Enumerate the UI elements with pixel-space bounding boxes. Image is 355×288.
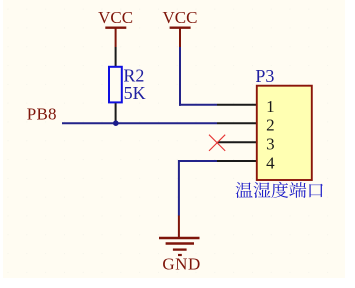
svg-text:VCC: VCC <box>98 8 133 27</box>
svg-text:4: 4 <box>266 153 275 172</box>
svg-text:3: 3 <box>266 135 275 154</box>
svg-text:2: 2 <box>266 116 275 135</box>
svg-text:P3: P3 <box>255 66 274 86</box>
svg-text:5K: 5K <box>124 83 146 103</box>
svg-text:VCC: VCC <box>163 8 198 27</box>
svg-text:GND: GND <box>162 254 200 273</box>
svg-text:PB8: PB8 <box>27 105 57 124</box>
svg-text:1: 1 <box>266 97 275 116</box>
